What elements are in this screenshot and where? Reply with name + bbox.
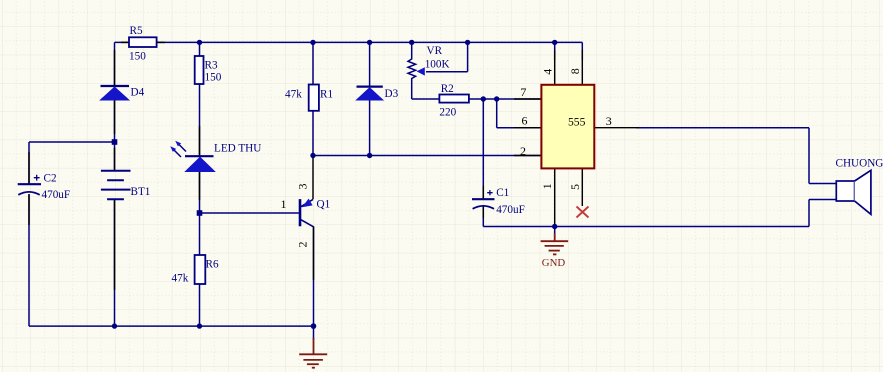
svg-text:100K: 100K (425, 59, 450, 71)
wire Q1 base (200, 212, 300, 214)
svg-text:47k: 47k (285, 89, 302, 101)
svg-text:C1: C1 (496, 187, 509, 199)
node R2-pin6 (494, 96, 499, 101)
wire earth stub bottom (313, 326, 315, 340)
LED pin stubs (199, 126, 201, 200)
wire R3 column (199, 42, 201, 156)
node gnd rail (552, 224, 557, 229)
wire Q1 emitter to rail (313, 226, 315, 326)
wire pin3 to speaker (636, 127, 809, 129)
svg-text:GND: GND (542, 257, 566, 269)
node pin2-R1 (310, 153, 315, 158)
svg-text:2: 2 (520, 144, 526, 158)
op-amp U1 555 timer (541, 85, 594, 169)
node rail Q1 (311, 323, 317, 329)
wire C1 column (482, 99, 484, 227)
diode D3 (357, 87, 399, 100)
battery BT1 (101, 171, 150, 200)
wire node to C2 branch (29, 142, 115, 184)
wire left column to D4 (114, 42, 116, 86)
pin 7 stub (514, 98, 541, 100)
pin 3 stub (594, 127, 639, 129)
wire D4 anode to node (114, 100, 116, 143)
resistor R6 (172, 255, 219, 285)
potentiometer VR (408, 45, 450, 79)
speaker CHUONG (836, 158, 883, 215)
wire BT1 top (114, 142, 116, 171)
node R2-C1 (481, 96, 486, 101)
wire pin4 riser (554, 42, 556, 60)
node D3 top (367, 40, 372, 45)
resistor R5 (129, 25, 157, 63)
wire BT1 bottom to rail (114, 199, 116, 326)
wire VR bottom to R2 (412, 78, 440, 99)
pin 5 stub (581, 168, 583, 206)
wire pin8 riser (581, 42, 583, 60)
pin 2 stub (514, 155, 541, 157)
wire pin6 loop (497, 99, 542, 128)
svg-text:D3: D3 (385, 88, 399, 100)
wire bottom rail left (29, 325, 314, 327)
svg-text:150: 150 (129, 50, 146, 62)
wire VR top (411, 42, 413, 59)
pin 1 stub (554, 168, 556, 226)
svg-text:4: 4 (541, 69, 555, 75)
wire R1 column (312, 42, 314, 155)
photodiode LED THU (170, 141, 261, 172)
svg-text:6: 6 (522, 114, 528, 128)
wire bottom rail right (483, 226, 809, 228)
no-connect X on pin 5 (577, 207, 589, 218)
wire D3 column (369, 42, 371, 155)
wire VR wiper (426, 42, 468, 71)
resistor R1 (285, 85, 333, 111)
wire pin2 net (313, 155, 541, 157)
svg-text:470uF: 470uF (496, 204, 525, 216)
svg-text:R2: R2 (441, 83, 454, 95)
pin 8 stub (581, 50, 583, 85)
svg-text:R3: R3 (205, 60, 218, 72)
capacitor C1 (472, 187, 525, 216)
node VR top (409, 40, 414, 45)
svg-text:LED THU: LED THU (214, 143, 261, 155)
svg-text:5: 5 (568, 184, 582, 190)
Q1 emitter stub (313, 226, 315, 280)
svg-text:R5: R5 (130, 25, 143, 37)
D4 pin stubs (114, 50, 116, 134)
svg-text:CHUONG: CHUONG (836, 158, 883, 170)
resistor R3 (195, 56, 222, 84)
wire LED cathode to R6 and down (199, 172, 201, 327)
svg-text:Q1: Q1 (317, 199, 331, 211)
C1 pin stubs (482, 186, 484, 218)
ground GND power symbol (541, 233, 569, 254)
wire top rail (115, 41, 583, 43)
svg-text:VR: VR (427, 45, 443, 57)
ground earth symbol bottom (299, 338, 327, 368)
svg-text:R6: R6 (206, 259, 219, 271)
diode D4 (101, 86, 145, 100)
svg-text:R1: R1 (320, 89, 333, 101)
svg-text:8: 8 (568, 68, 582, 74)
pin 6 stub (514, 127, 541, 129)
svg-text:470uF: 470uF (42, 189, 71, 201)
Q1 collector stub (312, 156, 314, 200)
node rail BT1 (112, 323, 117, 328)
svg-text:BT1: BT1 (131, 186, 151, 198)
wire C2 bottom to bottom rail (28, 194, 30, 326)
node base tap (197, 210, 203, 216)
svg-text:150: 150 (205, 72, 222, 84)
wire gnd stub (554, 227, 556, 235)
wire speaker bottom lead (809, 200, 836, 227)
node R1 top (310, 40, 315, 45)
svg-text:47k: 47k (172, 273, 189, 285)
resistor R2 (439, 83, 469, 119)
node wiper top (465, 40, 470, 45)
node D4-C2-BT1 (112, 139, 118, 145)
svg-text:3: 3 (606, 114, 612, 128)
svg-text:D4: D4 (131, 87, 145, 99)
svg-text:7: 7 (520, 85, 526, 99)
wire R2 to pin7 (469, 98, 542, 100)
node rail R6 (197, 323, 202, 328)
C2 pin stubs (28, 152, 30, 225)
pin 4 stub (554, 50, 556, 85)
capacitor C2 (18, 173, 70, 201)
svg-text:1: 1 (281, 197, 287, 211)
node R3 top (197, 40, 202, 45)
svg-text:3: 3 (296, 184, 310, 190)
transistor Q1 (300, 199, 330, 227)
node pin2-D3 (367, 153, 372, 158)
svg-text:220: 220 (439, 107, 456, 119)
node pin4 (552, 40, 557, 45)
R5 pin stubs (121, 41, 165, 43)
svg-text:2: 2 (296, 242, 310, 248)
svg-text:C2: C2 (44, 173, 57, 185)
svg-text:1: 1 (540, 183, 554, 189)
wire speaker top lead (809, 128, 836, 184)
svg-text:555: 555 (568, 115, 586, 128)
BT1 pin stubs (114, 148, 116, 290)
